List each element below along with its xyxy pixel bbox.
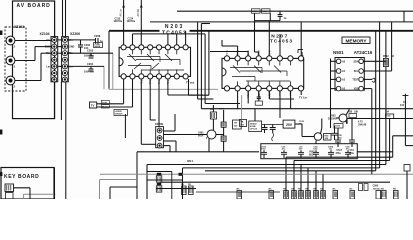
svg-text:C214: C214	[128, 17, 134, 20]
svg-text:AT24C16: AT24C16	[354, 50, 373, 55]
svg-text:C51: C51	[350, 150, 355, 152]
svg-text:16V/10u: 16V/10u	[373, 188, 382, 190]
svg-text:1: 1	[300, 52, 303, 58]
svg-text:N203: N203	[165, 24, 184, 30]
svg-text:4.7V: 4.7V	[358, 121, 363, 124]
svg-text:C215: C215	[115, 17, 121, 20]
svg-text:39K: 39K	[325, 138, 329, 140]
svg-text:GND: GND	[69, 46, 75, 49]
svg-text:TV in: TV in	[227, 49, 229, 55]
svg-text:AV BOARD: AV BOARD	[17, 3, 51, 9]
svg-text:5MVB: 5MVB	[95, 46, 101, 48]
svg-text:9014: 9014	[198, 135, 204, 138]
svg-text:C517: C517	[337, 150, 343, 152]
svg-text:104: 104	[400, 104, 405, 107]
svg-text:TV: TV	[91, 104, 95, 108]
svg-text:470u: 470u	[336, 152, 342, 155]
svg-text:AV Rin: AV Rin	[137, 8, 140, 16]
svg-text:10V: 10V	[234, 126, 238, 128]
svg-text:KEY BOARD: KEY BOARD	[4, 174, 39, 180]
svg-text:TV Lin: TV Lin	[299, 96, 307, 100]
svg-text:GND: GND	[45, 46, 51, 49]
svg-text:Lout: Lout	[102, 101, 107, 104]
svg-text:XZ104: XZ104	[40, 32, 50, 36]
svg-text:7B: 7B	[234, 123, 237, 125]
svg-text:7B: 7B	[241, 122, 244, 124]
svg-text:10K/47k: 10K/47k	[115, 113, 123, 116]
svg-text:16V/10u: 16V/10u	[127, 21, 136, 23]
svg-text:XZ206: XZ206	[70, 32, 80, 36]
svg-text:XZ103: XZ103	[14, 25, 24, 29]
svg-text:uPC24: uPC24	[250, 128, 258, 131]
svg-text:48V-1: 48V-1	[187, 160, 194, 163]
svg-text:C506: C506	[373, 186, 379, 188]
svg-text:C203: C203	[87, 49, 94, 53]
svg-text:C204: C204	[87, 62, 94, 66]
svg-text:10u: 10u	[299, 124, 303, 126]
svg-text:20V: 20V	[286, 123, 293, 127]
svg-text:Rout: Rout	[102, 105, 107, 108]
svg-text:VSS: VSS	[354, 88, 359, 91]
svg-text:Vin: Vin	[46, 39, 50, 42]
svg-text:C220: C220	[252, 11, 258, 13]
svg-text:C515: C515	[335, 126, 341, 128]
svg-text:MEMORY: MEMORY	[346, 38, 368, 43]
svg-text:N501: N501	[333, 50, 344, 55]
svg-text:TV avs: TV avs	[186, 81, 195, 85]
svg-text:16V/10u: 16V/10u	[114, 21, 123, 23]
svg-text:2SC945: 2SC945	[328, 118, 337, 121]
svg-text:C208: C208	[94, 34, 101, 38]
svg-text:1N4148: 1N4148	[358, 123, 367, 126]
svg-text:10V: 10V	[240, 124, 244, 126]
svg-text:AV Lin: AV Lin	[119, 9, 122, 17]
svg-text:R227: R227	[262, 11, 268, 13]
svg-text:Lin: Lin	[46, 65, 50, 68]
svg-text:TEST: TEST	[352, 78, 359, 81]
svg-text:TC4053: TC4053	[270, 39, 293, 45]
svg-text:Rin: Rin	[46, 52, 50, 55]
svg-text:SCL: SCL	[354, 70, 359, 73]
svg-text:SDA: SDA	[353, 60, 358, 63]
